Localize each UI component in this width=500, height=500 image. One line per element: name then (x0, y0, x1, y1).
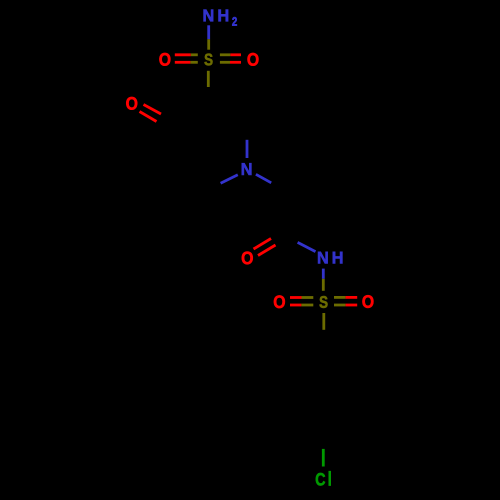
ring N label (242, 163, 252, 175)
S=O right double bond, O half (230, 55, 241, 63)
sulfonyl S label (319, 296, 327, 308)
amide O label (242, 252, 253, 265)
bond C4'-Cl (Cl half) (322, 449, 325, 467)
sulfonyl S=O right, S half (334, 297, 346, 305)
chlorine Cl label (316, 471, 331, 485)
S=O left double bond, S half (190, 55, 197, 63)
bond NH-S upper half (N side) (322, 269, 325, 279)
S=O right double bond, S half (220, 55, 231, 63)
sulfonyl S=O left, S half (301, 298, 313, 306)
sulfonyl S=O left, O half (290, 298, 302, 306)
bond S-C1' (S half) (322, 313, 325, 330)
right O label (247, 53, 258, 66)
left O label (159, 53, 170, 66)
amide C=O double bond, O halves (254, 239, 276, 256)
bond C-NH (N half) (298, 242, 316, 251)
bond C2-N (N half, vertical) (246, 140, 249, 158)
ketone C=O double bond, O halves (140, 105, 162, 122)
bond S-C3 (S half) (207, 71, 210, 87)
bond C6-N (N half, down-left) (221, 175, 238, 183)
sulfonyl S=O right, O half (346, 297, 358, 305)
bond N-CH2 (N half, down-right) (256, 174, 271, 183)
amine NH2 label (204, 10, 237, 26)
S=O left double bond, O half (175, 55, 191, 63)
bond NH-S lower half (S side) (322, 279, 325, 291)
ketone O label (126, 97, 137, 110)
sulfonyl left O label (274, 295, 285, 308)
bond N-S lower half (S side) (207, 39, 210, 50)
sulfonamide S label (204, 54, 212, 66)
bond N-S upper half (N side) (207, 25, 210, 39)
sulfonyl right O label (362, 295, 373, 308)
amide NH label (318, 252, 342, 264)
